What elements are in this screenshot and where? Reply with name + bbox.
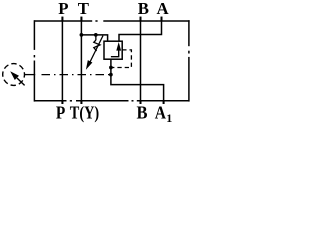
- enclosure top edge (chain line): [34, 20, 189, 22]
- svg-text:P: P: [56, 102, 65, 122]
- spring stub: [95, 35, 97, 40]
- port tick P bottom: [61, 100, 63, 104]
- wire port T vertical: [80, 17, 82, 104]
- port tick A top: [161, 17, 163, 22]
- wire valve bottom to port A1: [111, 59, 164, 104]
- junction dot T tap: [80, 33, 84, 37]
- svg-text:A: A: [156, 0, 168, 18]
- svg-text:P: P: [58, 0, 68, 18]
- port tick T top: [80, 17, 82, 22]
- svg-text:B: B: [137, 102, 148, 122]
- enclosure right edge (chain line): [188, 20, 190, 101]
- svg-text:T: T: [78, 0, 89, 18]
- junction dot gauge: [109, 73, 113, 77]
- port tick A1 bottom: [163, 100, 165, 104]
- adjustment arrow: [90, 36, 103, 63]
- junction dot spring stub: [94, 33, 98, 37]
- enclosure bottom edge (chain line): [34, 100, 189, 102]
- port tick B top: [140, 17, 142, 22]
- port tick T bottom: [80, 100, 82, 104]
- pilot line (dashed): [113, 50, 132, 68]
- wire port B vertical: [140, 17, 142, 104]
- junction dot pilot: [109, 66, 113, 70]
- svg-text:T(Y): T(Y): [70, 102, 99, 123]
- svg-text:A: A: [155, 102, 166, 122]
- svg-text:B: B: [138, 0, 149, 18]
- wire T tap to valve: [81, 35, 107, 41]
- port tick P top: [61, 17, 63, 22]
- port tick B bottom: [140, 100, 142, 104]
- gauge needle: [17, 78, 25, 85]
- enclosure left edge (chain line): [33, 20, 35, 101]
- svg-text:1: 1: [166, 111, 172, 124]
- wire port A to valve top: [119, 17, 162, 41]
- relief valve U1 body: [104, 41, 122, 59]
- wire port P vertical: [61, 17, 63, 104]
- gauge line (dash-dot): [25, 74, 111, 76]
- spring: [94, 40, 100, 51]
- pressure gauge circle (dashed): [3, 64, 25, 86]
- relief valve flow arrow: [111, 47, 119, 57]
